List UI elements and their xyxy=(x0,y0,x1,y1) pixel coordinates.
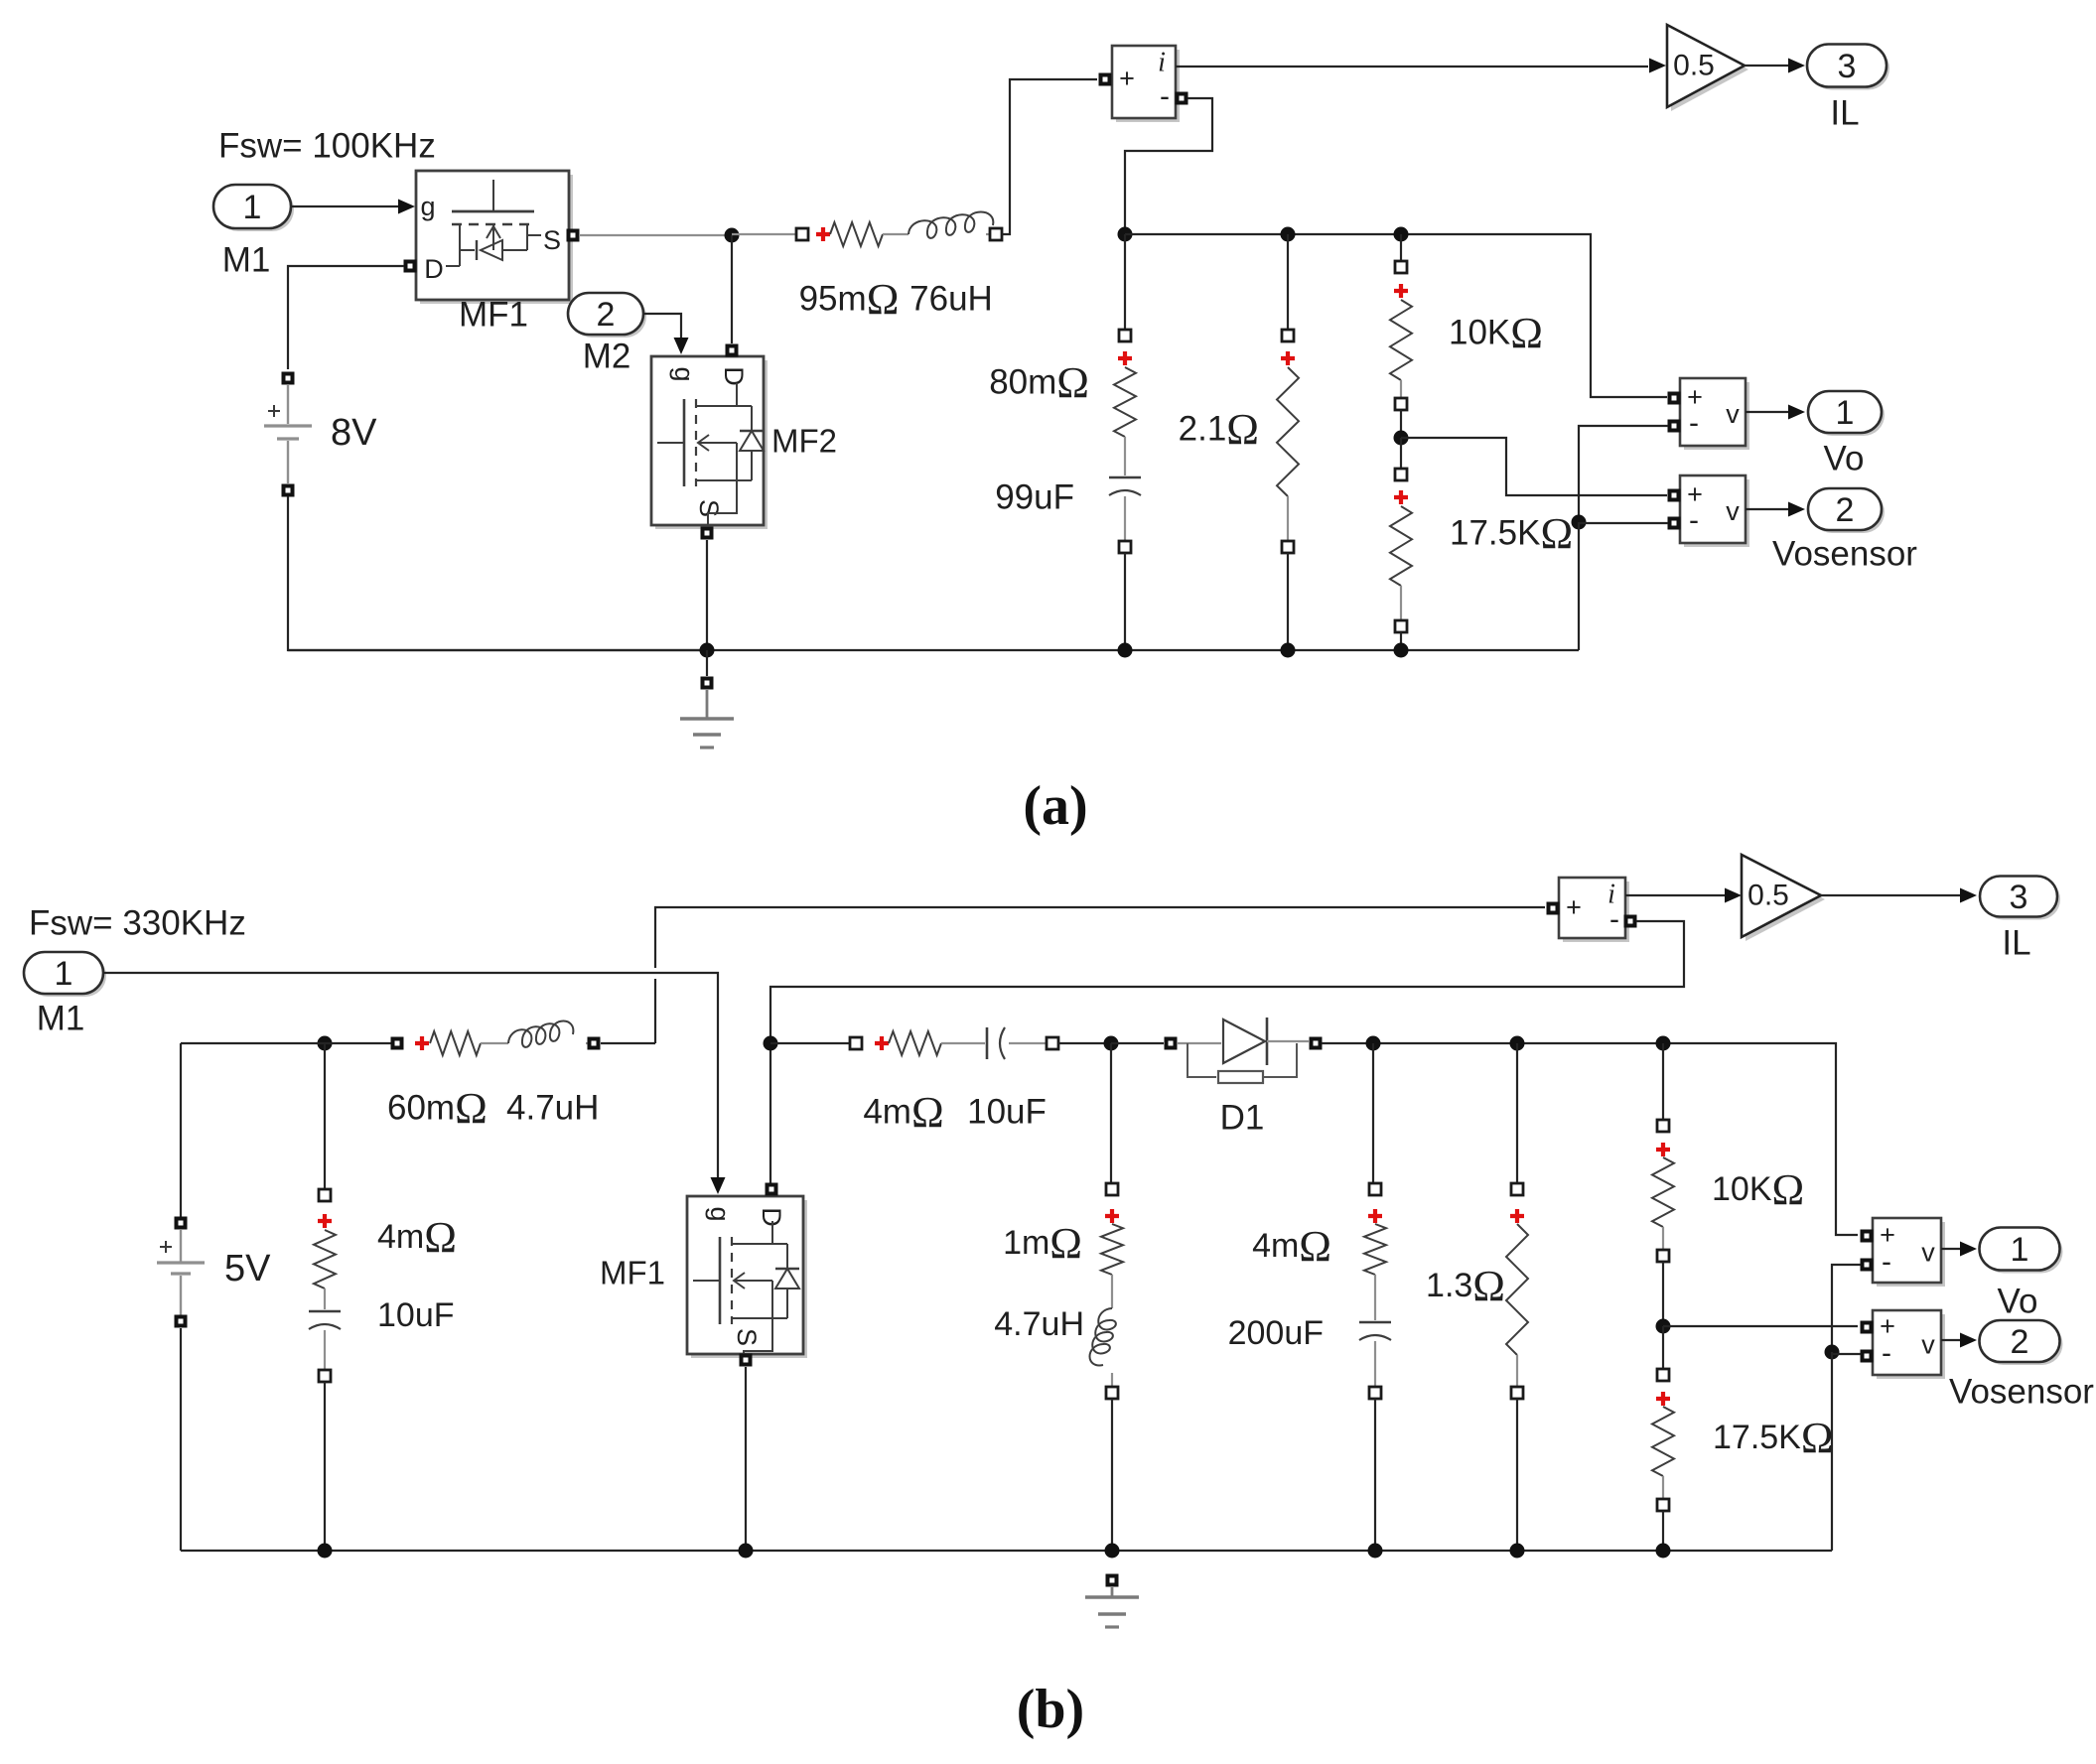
wire port1 to MF1 gate xyxy=(291,200,415,214)
svg-text:4mΩ: 4mΩ xyxy=(1252,1222,1331,1271)
svg-text:Vosensor: Vosensor xyxy=(1772,535,1917,574)
output port 2 (M2) xyxy=(568,293,646,338)
svg-text:1.3Ω: 1.3Ω xyxy=(1426,1262,1505,1310)
mosfet MF1 (b) xyxy=(687,1196,807,1363)
wire Vo- ground rail (b) xyxy=(1832,1265,1861,1346)
junction Vout bus left xyxy=(1118,227,1133,242)
svg-text:IL: IL xyxy=(1830,94,1859,133)
label 4mOhm input xyxy=(377,1213,457,1262)
svg-text:D: D xyxy=(424,254,444,284)
ground symbol (b) xyxy=(1085,1574,1139,1628)
resistor branch 1.3Ohm xyxy=(1506,1043,1528,1551)
svg-text:5V: 5V xyxy=(224,1248,271,1289)
svg-text:80mΩ: 80mΩ xyxy=(989,358,1089,407)
label 4.7uH branch xyxy=(994,1305,1084,1343)
label M1 xyxy=(222,241,271,280)
svg-text:3: 3 xyxy=(2010,879,2028,916)
label 4mOhm damping xyxy=(863,1088,943,1137)
ground symbol (a) xyxy=(680,650,734,747)
svg-text:4mΩ: 4mΩ xyxy=(863,1088,943,1137)
voltage sensor Vo (a) xyxy=(1680,378,1749,450)
output port 1 (Vo) xyxy=(1808,391,1885,436)
label M1 (b) xyxy=(37,1000,85,1038)
inductor branch 1mOhm 4.7uH xyxy=(1090,1043,1124,1551)
wire Vo sensor output xyxy=(1746,405,1805,420)
junction bus cap branch xyxy=(1118,643,1133,658)
junction rail 200uF branch xyxy=(1366,1036,1381,1051)
svg-text:4.7uH: 4.7uH xyxy=(994,1305,1084,1343)
wire ground rail right xyxy=(1578,522,1580,650)
pin + Vosensor b xyxy=(1861,1321,1874,1334)
junction bus battery-... MF2 xyxy=(700,643,715,658)
pin S port of MF2 xyxy=(701,527,714,540)
label IL (b) xyxy=(2002,924,2030,963)
wire MF1 S to node xyxy=(579,234,725,236)
ground bus (b) xyxy=(181,1550,1832,1552)
junction rail at 1m branch xyxy=(1104,1036,1119,1051)
wire Vo- to ground rail xyxy=(1579,426,1668,516)
label M2 xyxy=(583,338,631,376)
wire gain b to port 3 xyxy=(1821,888,1977,903)
wire MF1b source to bus xyxy=(745,1367,747,1551)
text Fsw= 330KHz xyxy=(29,904,246,943)
svg-text:Fsw= 100KHz: Fsw= 100KHz xyxy=(218,127,436,166)
svg-text:IL: IL xyxy=(2002,924,2030,963)
junction input filter tap xyxy=(318,1036,333,1051)
wire Vosensor- stub xyxy=(1579,522,1668,524)
label 8V xyxy=(331,412,377,454)
junction bus input cap xyxy=(318,1544,333,1559)
svg-text:+: + xyxy=(1119,64,1135,93)
wire divider mid to Vosensor+ (b) xyxy=(1663,1325,1858,1327)
label 17.5KOhm (b) xyxy=(1713,1414,1834,1462)
pin - Vo sensor xyxy=(1668,420,1681,433)
wire current sensor output to gain xyxy=(1176,59,1666,73)
mosfet MF1 xyxy=(416,171,573,304)
pin - Vosensor b xyxy=(1861,1350,1874,1363)
svg-text:Vo: Vo xyxy=(1824,440,1865,478)
wire rail to D1 xyxy=(1111,1042,1164,1044)
svg-text:10KΩ: 10KΩ xyxy=(1712,1165,1804,1214)
svg-text:-: - xyxy=(1689,407,1699,440)
svg-text:i: i xyxy=(1607,880,1615,910)
svg-text:10KΩ: 10KΩ xyxy=(1449,309,1543,357)
pin + Vo b xyxy=(1861,1230,1874,1243)
pin D port of MF1 xyxy=(404,260,417,273)
pin S port of MF1 xyxy=(567,229,580,242)
svg-text:2: 2 xyxy=(2011,1323,2029,1361)
svg-text:2: 2 xyxy=(1836,491,1855,529)
junction divider mid (b) xyxy=(1656,1319,1671,1334)
junction sensor ground (b) xyxy=(1825,1345,1840,1360)
label Vosensor (b) xyxy=(1949,1373,2094,1412)
svg-text:76uH: 76uH xyxy=(909,280,993,319)
pin + Vosensor xyxy=(1668,489,1681,502)
wire node to RL input xyxy=(732,233,795,235)
gain 0.5 (a) xyxy=(1667,25,1748,111)
junction divider mid (a) xyxy=(1394,431,1409,446)
label 1mOhm xyxy=(1003,1219,1082,1268)
svg-text:4.7uH: 4.7uH xyxy=(506,1089,599,1128)
svg-text:1: 1 xyxy=(55,955,73,993)
junction rail 1.3 branch xyxy=(1510,1036,1525,1051)
svg-text:v: v xyxy=(1921,1330,1935,1360)
label Vo xyxy=(1824,440,1865,478)
label 200uF xyxy=(1228,1314,1324,1352)
label 80mOhm xyxy=(989,358,1089,407)
resistor 17.5KOhm (b) xyxy=(1652,1326,1674,1551)
svg-text:60mΩ: 60mΩ xyxy=(387,1084,488,1133)
pin S port MF1b xyxy=(740,1354,753,1367)
pin D port of MF2 xyxy=(726,344,739,357)
junction drain node xyxy=(764,1036,778,1051)
wire rail battery to RL1 xyxy=(181,1042,391,1044)
wire RL to current sensor xyxy=(1002,79,1097,234)
output port 1b (Vo) xyxy=(1980,1228,2063,1274)
junction bus 1m branch xyxy=(1105,1544,1120,1559)
label IL xyxy=(1830,94,1859,133)
svg-text:Vo: Vo xyxy=(1998,1283,2038,1321)
label 1.3Ohm xyxy=(1426,1262,1505,1310)
voltage sensor Vosensor (b) xyxy=(1873,1310,1945,1379)
label 10uF input xyxy=(377,1296,455,1334)
capacitor branch 4mOhm 10uF (input) xyxy=(309,1043,341,1551)
pin - Vo b xyxy=(1861,1259,1874,1272)
svg-text:17.5KΩ: 17.5KΩ xyxy=(1450,509,1573,558)
svg-text:2: 2 xyxy=(597,296,616,334)
svg-text:10uF: 10uF xyxy=(967,1093,1047,1132)
svg-text:g: g xyxy=(669,366,699,381)
svg-text:Fsw= 330KHz: Fsw= 330KHz xyxy=(29,904,246,943)
wire MF1 D to battery xyxy=(288,266,404,369)
text Fsw= 100KHz xyxy=(218,127,436,166)
mosfet MF2 xyxy=(651,356,768,529)
label Vo (b) xyxy=(1998,1283,2038,1321)
label 5V xyxy=(224,1248,271,1289)
svg-text:200uF: 200uF xyxy=(1228,1314,1324,1352)
resistor branch 2.1Ohm xyxy=(1277,234,1299,650)
pin - of current sensor xyxy=(1176,92,1188,105)
svg-text:v: v xyxy=(1726,496,1740,526)
svg-text:1: 1 xyxy=(2011,1231,2029,1269)
svg-text:MF1: MF1 xyxy=(600,1255,665,1291)
svg-text:0.5: 0.5 xyxy=(1673,50,1715,82)
svg-text:(a): (a) xyxy=(1023,775,1087,837)
svg-text:99uF: 99uF xyxy=(995,478,1074,517)
junction rail divider branch xyxy=(1656,1036,1671,1051)
voltage sensor Vo (b) xyxy=(1873,1218,1945,1287)
junction sensor ground xyxy=(1572,515,1587,530)
battery V2 5V xyxy=(157,1043,205,1551)
junction Vout bus right xyxy=(1394,227,1409,242)
output port 2b (Vosensor) xyxy=(1980,1320,2063,1365)
svg-text:2.1Ω: 2.1Ω xyxy=(1179,405,1259,454)
output port 3b (IL) xyxy=(1980,877,2060,920)
svg-text:17.5KΩ: 17.5KΩ xyxy=(1713,1414,1834,1462)
wire Vosensor output xyxy=(1746,502,1805,517)
junction bus MF1b source xyxy=(739,1544,754,1559)
label 10KOhm (b) xyxy=(1712,1165,1804,1214)
output port 3 (IL) xyxy=(1807,45,1889,90)
svg-text:v: v xyxy=(1921,1238,1935,1268)
gain 0.5 (b) xyxy=(1742,855,1825,941)
svg-text:MF2: MF2 xyxy=(771,423,837,460)
svg-text:-: - xyxy=(1689,504,1699,537)
diode D1 xyxy=(1165,1018,1323,1083)
svg-text:4mΩ: 4mΩ xyxy=(377,1213,457,1262)
svg-text:i: i xyxy=(1158,48,1166,78)
wire port1b to MF1b gate xyxy=(103,973,726,1194)
battery V1 8V xyxy=(264,372,312,497)
wire port2 to MF2 gate xyxy=(643,314,689,354)
pin D port MF1b xyxy=(766,1183,778,1196)
wire RL1 out to corner xyxy=(601,1042,655,1044)
wire MF2 source to bus xyxy=(706,540,708,650)
label 95mOhm xyxy=(799,275,900,324)
junction bus divider branch xyxy=(1394,643,1409,658)
voltage sensor Vosensor (a) xyxy=(1680,475,1749,547)
label MF1 (b) xyxy=(600,1255,665,1291)
svg-text:8V: 8V xyxy=(331,412,377,454)
wire Vosensor b output xyxy=(1941,1333,1977,1348)
pin + of current sensor xyxy=(1099,73,1112,86)
pin + of current sensor b xyxy=(1547,902,1560,915)
wire sensor b - return xyxy=(770,921,1684,1183)
wire output rail (b) xyxy=(1322,1043,1858,1235)
svg-text:v: v xyxy=(1726,399,1740,429)
resistor 17.5KOhm xyxy=(1390,438,1412,650)
svg-text:(b): (b) xyxy=(1017,1679,1084,1740)
current sensor Iab (a) xyxy=(1112,46,1180,122)
svg-text:-: - xyxy=(1882,1337,1891,1370)
pin - of current sensor b xyxy=(1624,915,1637,928)
svg-text:1: 1 xyxy=(1836,394,1855,432)
label 4.7uH RL1 xyxy=(506,1089,599,1128)
svg-text:1: 1 xyxy=(243,189,262,226)
label MF2 xyxy=(771,423,837,460)
junction bus 200uF branch xyxy=(1368,1544,1383,1559)
pin - Vosensor xyxy=(1668,517,1681,530)
resistor 10KOhm (b) xyxy=(1652,1043,1674,1320)
svg-text:+: + xyxy=(1566,892,1582,922)
output port 2 (Vosensor) xyxy=(1808,488,1885,533)
svg-text:S: S xyxy=(732,1328,762,1346)
svg-text:MF1: MF1 xyxy=(459,296,528,335)
wire sensor b output to gain xyxy=(1625,888,1742,903)
current sensor Iab (b) xyxy=(1559,878,1629,942)
wire Vo b output xyxy=(1941,1242,1977,1257)
label Vosensor xyxy=(1772,535,1917,574)
input port 1 (M1) xyxy=(213,185,294,231)
wire Vout bus xyxy=(1125,234,1667,397)
label 76uH xyxy=(909,280,993,319)
svg-text:3: 3 xyxy=(1838,48,1857,85)
label 17.5KOhm xyxy=(1450,509,1573,558)
capacitor branch 4mOhm 200uF xyxy=(1359,1043,1391,1551)
svg-text:0.5: 0.5 xyxy=(1747,880,1789,912)
junction switch node xyxy=(725,228,740,243)
junction bus 1.3 branch xyxy=(1510,1544,1525,1559)
label 4mOhm 200uF branch xyxy=(1252,1222,1331,1271)
svg-text:10uF: 10uF xyxy=(377,1296,455,1334)
svg-text:S: S xyxy=(543,225,561,255)
damping branch 4mOhm 10uF (b) xyxy=(770,1027,1105,1059)
capacitor branch 80mOhm 99uF xyxy=(1109,234,1141,650)
svg-text:Vosensor: Vosensor xyxy=(1949,1373,2094,1412)
caption (a) xyxy=(1023,775,1087,837)
wire gain to port 3 xyxy=(1745,59,1805,73)
wire battery to ground bus xyxy=(288,496,707,650)
label 60mOhm xyxy=(387,1084,488,1133)
svg-text:-: - xyxy=(1882,1246,1891,1279)
wire ground rail down (b) xyxy=(1831,1352,1833,1551)
pin + Vo sensor xyxy=(1668,392,1681,405)
caption (b) xyxy=(1017,1679,1084,1740)
svg-text:M2: M2 xyxy=(583,338,631,376)
label MF1 xyxy=(459,296,528,335)
label 10KOhm xyxy=(1449,309,1543,357)
label 99uF xyxy=(995,478,1074,517)
svg-text:D: D xyxy=(719,366,749,386)
resistor-inductor 60mOhm 4.7uH xyxy=(391,1021,601,1056)
wire divider mid to Vosensor+ xyxy=(1401,438,1667,495)
svg-text:D1: D1 xyxy=(1220,1099,1265,1138)
wire Vosensor- stub (b) xyxy=(1832,1353,1861,1355)
wire current sensor - return xyxy=(1125,98,1212,228)
junction bus divider (b) xyxy=(1656,1544,1671,1559)
resistor 10KOhm xyxy=(1390,234,1412,432)
svg-text:-: - xyxy=(1160,80,1170,113)
svg-text:1mΩ: 1mΩ xyxy=(1003,1219,1082,1268)
label 10uF damping xyxy=(967,1093,1047,1132)
svg-text:g: g xyxy=(705,1206,735,1221)
svg-text:M1: M1 xyxy=(222,241,271,280)
svg-text:g: g xyxy=(420,192,435,221)
svg-text:95mΩ: 95mΩ xyxy=(799,275,900,324)
svg-text:M1: M1 xyxy=(37,1000,85,1038)
input port 1b (M1) xyxy=(24,952,106,997)
junction bus 2.1 branch xyxy=(1281,643,1296,658)
ground bus (a) xyxy=(288,649,1579,651)
wire node to MF2 drain xyxy=(731,235,733,343)
label D1 xyxy=(1220,1099,1265,1138)
resistor-inductor branch 95mOhm 76uH xyxy=(796,212,1002,247)
junction Vout bus mid xyxy=(1281,227,1296,242)
wire RL1 up to sensor xyxy=(655,907,1545,1043)
label 2.1Ohm xyxy=(1179,405,1259,454)
